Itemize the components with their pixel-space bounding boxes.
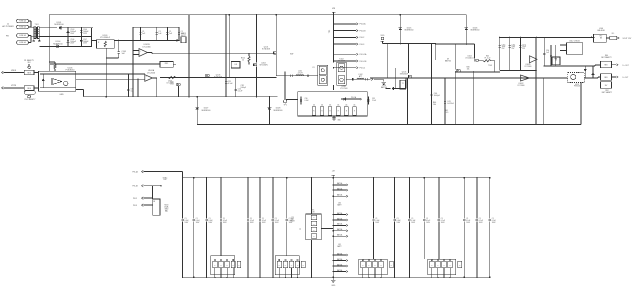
svg-text:BATT: BATT	[337, 204, 341, 207]
svg-text:2R: 2R	[238, 265, 240, 267]
svg-text:10uF: 10uF	[502, 46, 506, 48]
svg-text:1k: 1k	[242, 60, 244, 62]
svg-text:RES: RES	[604, 65, 607, 67]
svg-text:LTC2066: LTC2066	[525, 66, 532, 68]
svg-text:MURS160: MURS160	[202, 110, 211, 112]
svg-text:BAT760: BAT760	[381, 86, 387, 89]
svg-text:10k: 10k	[329, 104, 331, 106]
svg-text:T101: T101	[35, 24, 39, 26]
svg-text:MURS160: MURS160	[53, 43, 63, 45]
svg-text:C1: C1	[223, 218, 225, 220]
svg-text:2R: 2R	[368, 265, 370, 267]
svg-text:10k: 10k	[321, 104, 323, 106]
svg-text:BT: BT	[313, 229, 315, 231]
svg-text:2R: 2R	[380, 265, 382, 267]
svg-text:0.1uF: 0.1uF	[479, 220, 483, 222]
svg-text:0.1uF: 0.1uF	[426, 220, 430, 222]
svg-text:U8: U8	[235, 64, 237, 66]
svg-text:C1: C1	[209, 218, 211, 220]
svg-text:FOD8160: FOD8160	[66, 70, 76, 72]
svg-text:BAT760: BAT760	[445, 59, 451, 62]
svg-text:PVI-3: PVI-3	[133, 205, 137, 207]
svg-text:2R: 2R	[279, 265, 281, 267]
svg-text:2R: 2R	[437, 265, 439, 267]
svg-text:FL1: FL1	[612, 33, 615, 35]
svg-text:0.1uF: 0.1uF	[375, 220, 379, 222]
svg-text:GND: GND	[338, 120, 341, 122]
svg-text:D- OUT: D- OUT	[623, 77, 629, 79]
svg-text:10k: 10k	[345, 104, 347, 106]
svg-text:C1: C1	[441, 218, 443, 220]
svg-text:0.02: 0.02	[170, 83, 174, 85]
svg-text:NCP?: NCP?	[181, 35, 186, 37]
svg-text:RES: RES	[604, 77, 607, 79]
svg-text:1000pF: 1000pF	[83, 41, 88, 43]
svg-text:C1: C1	[397, 218, 399, 220]
svg-text:NET SAFETY: NET SAFETY	[601, 56, 612, 59]
svg-text:0.1uF: 0.1uF	[466, 220, 470, 222]
svg-text:+BT: +BT	[332, 171, 335, 173]
svg-text:PVI-1B: PVI-1B	[132, 186, 138, 188]
svg-text:0.1uF: 0.1uF	[262, 220, 266, 222]
svg-text:K1: K1	[312, 67, 314, 69]
svg-text:BT: BT	[313, 223, 315, 225]
svg-text:SiR626DP: SiR626DP	[400, 74, 409, 76]
svg-text:GND: GND	[59, 94, 64, 96]
svg-text:C107: C107	[83, 39, 87, 41]
svg-text:R: R	[330, 110, 331, 112]
svg-text:0.1uF: 0.1uF	[397, 220, 401, 222]
svg-text:0.022uF: 0.022uF	[447, 103, 454, 105]
svg-text:PGO-1A: PGO-1A	[360, 53, 368, 56]
svg-text:R: R	[322, 110, 323, 112]
svg-text:FLT: FLT	[600, 36, 603, 38]
svg-text:C112: C112	[241, 85, 245, 87]
svg-text:+: +	[530, 57, 531, 59]
svg-text:C1: C1	[196, 218, 198, 220]
svg-text:0.1uF: 0.1uF	[492, 220, 496, 222]
svg-text:Si7113DN: Si7113DN	[259, 65, 268, 67]
svg-text:C103: C103	[70, 29, 74, 31]
svg-text:2R: 2R	[303, 265, 305, 267]
svg-text:LTC2066: LTC2066	[142, 46, 151, 48]
svg-text:10k: 10k	[313, 104, 315, 106]
svg-text:MURS160: MURS160	[274, 110, 283, 112]
svg-text:C30: C30	[305, 98, 308, 100]
svg-text:C1: C1	[466, 218, 468, 220]
svg-text:LTC7003: LTC7003	[340, 88, 347, 90]
svg-text:PVI-1A: PVI-1A	[132, 170, 138, 173]
svg-text:10k: 10k	[433, 104, 436, 106]
svg-text:C1: C1	[375, 218, 377, 220]
svg-text:BAL: BAL	[165, 209, 168, 212]
svg-text:C1: C1	[262, 218, 264, 220]
svg-text:C115: C115	[522, 44, 526, 46]
svg-text:BATT: BATT	[337, 245, 341, 248]
svg-text:AC POWER: AC POWER	[2, 25, 14, 28]
svg-text:2R: 2R	[232, 265, 234, 267]
svg-text:1000pF: 1000pF	[241, 87, 246, 89]
svg-text:2R: 2R	[291, 265, 293, 267]
svg-text:2R: 2R	[443, 265, 445, 267]
svg-text:BT: BT	[313, 217, 315, 219]
svg-text:VBUS: VBUS	[11, 70, 17, 72]
svg-text:C115: C115	[512, 44, 516, 46]
svg-text:RV1 SAFETY: RV1 SAFETY	[25, 98, 37, 101]
svg-text:Si7113DN: Si7113DN	[262, 49, 271, 51]
svg-text:C35: C35	[372, 98, 375, 100]
svg-text:2R: 2R	[391, 265, 393, 267]
svg-text:R: R	[313, 110, 314, 112]
svg-text:C1: C1	[492, 218, 494, 220]
svg-text:MURS160: MURS160	[405, 30, 414, 32]
svg-text:C1: C1	[250, 218, 252, 220]
svg-text:PGI-3: PGI-3	[360, 44, 365, 46]
svg-text:10uF: 10uF	[512, 46, 516, 48]
svg-text:SW: SW	[290, 54, 293, 56]
svg-text:2R: 2R	[297, 265, 299, 267]
svg-text:+: +	[146, 76, 147, 78]
svg-text:BT: BT	[313, 236, 315, 238]
svg-text:T2: T2	[402, 83, 404, 85]
svg-text:0.1uF: 0.1uF	[250, 220, 254, 222]
svg-text:+: +	[140, 51, 141, 53]
svg-text:1000pF: 1000pF	[83, 31, 88, 33]
svg-text:2R: 2R	[214, 265, 216, 267]
svg-text:0.1uF: 0.1uF	[185, 220, 189, 222]
svg-text:TP1: TP1	[284, 105, 287, 107]
svg-text:LTC2066: LTC2066	[518, 85, 525, 87]
svg-text:VOUT 12V: VOUT 12V	[623, 38, 632, 40]
svg-text:10k: 10k	[467, 68, 470, 70]
svg-text:PGO-1B: PGO-1B	[360, 61, 368, 63]
svg-text:10k: 10k	[337, 104, 339, 106]
svg-text:PGI-1A: PGI-1A	[360, 23, 367, 26]
svg-text:R: R	[338, 110, 339, 112]
svg-text:2kV: 2kV	[605, 85, 608, 87]
svg-text:PGO-2: PGO-2	[360, 68, 366, 70]
svg-text:RS1: RS1	[165, 63, 169, 65]
svg-text:R: R	[346, 110, 347, 112]
svg-text:0.1uF: 0.1uF	[305, 100, 309, 102]
svg-text:NET SAFETY: NET SAFETY	[602, 91, 613, 94]
svg-text:C1: C1	[275, 218, 277, 220]
svg-text:J29: J29	[291, 217, 294, 219]
svg-text:1000pF: 1000pF	[70, 31, 75, 33]
svg-text:C1: C1	[411, 218, 413, 220]
svg-text:10uF: 10uF	[522, 46, 526, 48]
svg-text:49.9: 49.9	[445, 112, 449, 114]
svg-text:2R: 2R	[449, 265, 451, 267]
svg-text:0.1uF: 0.1uF	[209, 220, 213, 222]
svg-text:2R: 2R	[362, 265, 364, 267]
svg-text:U112 LT3032: U112 LT3032	[569, 41, 580, 43]
svg-text:LTC2066: LTC2066	[147, 72, 156, 74]
svg-text:2R: 2R	[285, 265, 287, 267]
svg-text:PS9123: PS9123	[574, 86, 580, 88]
svg-text:0.1uF: 0.1uF	[223, 220, 227, 222]
svg-text:0.1uF: 0.1uF	[275, 220, 279, 222]
svg-text:XAL4040: XAL4040	[597, 29, 604, 32]
svg-text:C1: C1	[185, 218, 187, 220]
svg-text:2R: 2R	[431, 265, 433, 267]
svg-text:C104: C104	[83, 29, 87, 31]
svg-text:FL 0.22: FL 0.22	[485, 57, 491, 59]
svg-text:PVI-2: PVI-2	[133, 198, 137, 200]
svg-text:0.1uF: 0.1uF	[441, 220, 445, 222]
svg-text:T103: T103	[488, 65, 492, 67]
svg-text:MURS160: MURS160	[471, 30, 480, 32]
svg-text:C1: C1	[479, 218, 481, 220]
svg-text:D+ OUT: D+ OUT	[623, 65, 629, 67]
svg-text:C106: C106	[70, 39, 74, 41]
svg-text:4.7uH: 4.7uH	[298, 73, 303, 75]
svg-text:TP2: TP2	[329, 30, 331, 33]
svg-text:Si7113DN: Si7113DN	[214, 77, 223, 79]
svg-text:1000pF: 1000pF	[434, 95, 441, 97]
svg-text:LTC4440-5: LTC4440-5	[465, 58, 473, 60]
svg-text:2R: 2R	[374, 265, 376, 267]
svg-text:10k: 10k	[353, 104, 355, 106]
svg-text:2.2uF: 2.2uF	[372, 100, 376, 102]
svg-text:PGI-1B: PGI-1B	[360, 30, 367, 32]
svg-text:R: R	[354, 110, 355, 112]
svg-text:1uF: 1uF	[546, 52, 549, 54]
svg-text:C115: C115	[502, 44, 506, 46]
svg-text:C1: C1	[426, 218, 428, 220]
svg-text:2R: 2R	[459, 265, 461, 267]
svg-text:6R: 6R	[153, 201, 155, 203]
svg-text:PGI-2: PGI-2	[360, 37, 365, 39]
svg-text:+: +	[521, 76, 522, 78]
svg-text:2R: 2R	[220, 265, 222, 267]
svg-text:0.1uF: 0.1uF	[411, 220, 415, 222]
svg-text:2R: 2R	[226, 265, 228, 267]
svg-text:MURS160: MURS160	[54, 24, 64, 26]
svg-text:1000pF: 1000pF	[70, 41, 75, 43]
svg-text:0.1uF: 0.1uF	[196, 220, 200, 222]
svg-text:LTC4366-2: LTC4366-2	[100, 37, 111, 39]
svg-text:VRTN: VRTN	[11, 85, 17, 87]
